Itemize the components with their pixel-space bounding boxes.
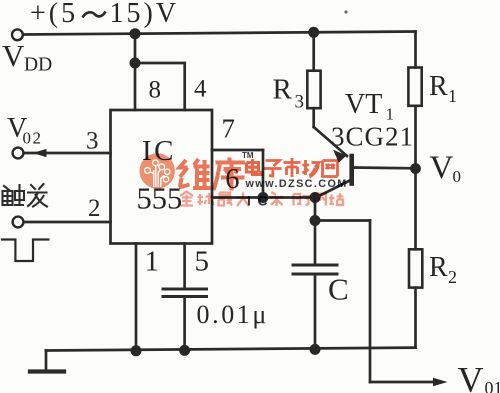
wire VDD stub to pin8 drop [134,34,137,63]
terminal pin3 circle [13,148,24,159]
junction dot ground pin1 [131,345,142,356]
svg-text:4: 4 [194,76,207,103]
junction dot ground C [310,344,321,355]
wire top supply rail [23,32,416,35]
网 [315,194,327,206]
wire V01 branch vertical [369,221,372,383]
svg-text:DD: DD [24,55,52,76]
svg-text:V: V [458,360,484,393]
svg-text:V: V [430,150,454,186]
svg-text:+(5: +(5 [30,0,78,29]
wire R2 top lead [414,169,417,250]
wire R1 top lead [414,32,417,68]
wire V01 branch horizontal [315,219,370,222]
IC U1 555 timer box [111,110,213,244]
svg-text:R: R [429,252,448,283]
transistor Q1 base bar [349,156,354,184]
svg-text:0.01μ: 0.01μ [197,300,269,329]
svg-text:2: 2 [448,267,457,287]
watermark hanzi 子 [264,161,282,177]
svg-text:3: 3 [86,128,99,155]
capacitor C plates [293,264,337,267]
wire pin 4 drop [183,63,186,110]
watermark hanzi 电 [247,159,262,175]
wire pin 6 lead to collector node [212,196,316,199]
svg-text:15)V: 15)V [110,0,180,29]
svg-text:R: R [429,71,448,102]
resistor R1 body [408,68,421,106]
wire R1 bottom lead [414,106,417,169]
svg-text:0: 0 [453,167,462,186]
svg-text:3: 3 [295,92,305,113]
wire pin 5 lead [183,244,186,288]
junction dot collector node [310,192,321,203]
watermark group [140,151,348,209]
junction dot 8/4 bracket [130,58,141,69]
label trigger hanzi 触 [3,185,25,205]
watermark hanzi 场 [303,160,320,177]
svg-text:www.DZSC.COM: www.DZSC.COM [245,178,348,190]
transistor Q1 collector diagonal [316,181,350,198]
站 [329,193,344,205]
wire R3 top lead [312,32,315,70]
trigger pulse waveform [2,240,48,262]
watermark hanzi 市 [284,158,301,177]
svg-text:R: R [273,74,293,106]
svg-text:V: V [2,38,25,73]
svg-text:2: 2 [88,195,101,222]
wire V01 output line [370,381,436,384]
svg-text:3CG21: 3CG21 [331,122,414,152]
svg-text:01: 01 [485,378,500,393]
wire ground rail [46,348,416,351]
wire R2 bottom lead [414,288,417,348]
watermark pink slogan 全 [180,192,344,207]
stray scan speck [344,10,347,13]
junction dot V01 tee [310,215,321,226]
svg-text:8: 8 [149,77,162,104]
wire pin 3 lead [24,152,111,155]
最 [219,193,233,206]
svg-text:1: 1 [448,86,457,106]
wire ground drop [45,351,48,372]
购 [294,194,310,206]
arrowhead V01 output [433,378,448,387]
wire pin 8 drop [134,63,137,110]
wire node down to capacitor C [314,198,317,264]
svg-text:C: C [328,272,349,307]
label trigger hanzi 发 [28,184,47,207]
wire 8/4 bracket horizontal [135,62,185,65]
wire 0.01u bottom lead [183,298,186,350]
wire pin 1 lead [135,244,138,352]
transistor Q1 emitter diagonal [314,127,347,156]
wire pin7-pin6 vertical [262,150,265,198]
wire pin 7 lead [212,149,263,152]
resistor R3 body [307,71,320,109]
svg-text:VT: VT [345,89,382,120]
svg-text:I: I [247,193,251,209]
junction dot pin6/7 [258,192,269,203]
terminal VDD circle [12,29,23,40]
resistor R2 body [409,249,422,287]
wire R3 bottom lead [312,108,315,127]
watermark hanzi 网 [323,161,338,177]
watermark hanzi 维 [179,159,211,189]
采 [270,192,284,206]
svg-text:TM: TM [242,151,254,160]
junction dot V0 [410,163,421,174]
svg-text:1: 1 [145,246,160,278]
svg-text:7: 7 [222,114,236,144]
球 [198,193,214,205]
arrowhead transistor emitter [333,150,346,163]
wire pin 2 lead [24,221,111,224]
ground symbol bar [30,369,64,373]
junction dot top rail at pin8 drop [130,28,141,39]
terminal pin2 circle [13,217,24,228]
svg-text:C: C [258,193,268,209]
junction dot top rail at R3 [308,27,319,38]
watermark hanzi 库 [214,158,246,191]
svg-text:02: 02 [23,129,43,148]
watermark logo disc [140,153,175,188]
transistor Q1 base lead to V0 [353,166,416,170]
svg-text:5: 5 [195,246,210,278]
junction dot ground 0.01u [179,345,190,356]
大 [237,193,250,207]
wire C bottom lead [314,276,317,350]
capacitor 0.01u plates [163,288,207,291]
arrowhead pin3 output [33,149,47,157]
